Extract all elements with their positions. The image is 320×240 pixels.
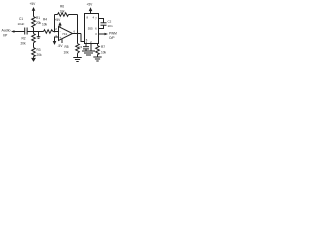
svg-text:2: 2 [55,27,57,31]
resistor R4 [42,18,53,34]
ground (small, at node A stub) [37,32,41,39]
power +5V (left) [30,2,37,17]
capacitor C2 [101,19,113,28]
svg-text:R5: R5 [65,45,69,49]
wire feedback left [54,15,56,32]
svg-text:20k: 20k [36,21,42,25]
svg-text:10k: 10k [101,50,107,54]
capacitor C1 [18,17,28,35]
capacitor C3 [79,44,90,52]
resistor R1 [32,16,42,32]
svg-text:I/P: I/P [3,33,8,37]
svg-text:10k: 10k [60,10,66,14]
svg-text:+5V: +5V [55,18,62,22]
svg-text:+5V: +5V [30,2,37,6]
svg-text:10n: 10n [108,24,113,28]
svg-text:R6: R6 [60,5,64,9]
resistor R6 [58,5,69,17]
wire pin 7 stub [99,19,104,23]
svg-text:10k: 10k [42,23,48,27]
svg-text:20k: 20k [21,41,27,45]
svg-text:6: 6 [95,27,97,31]
wire op-amp output [73,33,82,35]
svg-text:7: 7 [95,17,97,21]
resistor R2 [21,32,36,46]
resistor R3 [32,48,42,58]
svg-text:3: 3 [95,32,97,36]
svg-text:R3: R3 [37,48,41,52]
svg-text:555: 555 [88,27,93,31]
node C junction dot [77,33,79,35]
svg-text:PWM: PWM [109,32,117,36]
svg-text:+5V: +5V [87,3,94,7]
svg-text:8: 8 [87,15,89,19]
svg-text:R7: R7 [101,45,105,49]
resistor R7 [96,44,107,58]
wire pin 6 stub [99,25,104,28]
resistor R5 [64,44,80,58]
wire feedback right [77,15,79,34]
svg-text:10uF: 10uF [18,22,25,26]
wire feedback top right [69,14,78,16]
input arrow [11,30,17,32]
wire R4 to op-amp pin 2 [53,31,59,33]
svg-text:+: + [59,36,61,40]
wire input to C1 [17,31,25,33]
svg-text:20k: 20k [37,53,43,57]
node A junction dot [33,31,35,33]
node B junction dot [54,31,56,33]
wire pin 3 output arrow [99,32,118,41]
svg-text:-5V: -5V [58,44,64,48]
svg-text:R1: R1 [36,16,40,20]
svg-text:R2: R2 [22,37,26,41]
ground (arrow style under R3) [31,57,36,62]
svg-text:6: 6 [74,30,76,34]
wire IC pin 1 down [90,44,92,52]
power +5V (IC pins 8,4) [87,3,94,14]
svg-text:Audio: Audio [2,29,11,33]
ground (under R5) [73,58,81,62]
node Audio I/P label [2,29,11,38]
power +5V (op-amp pin 7) [55,18,62,28]
wire R2 to R3 [33,43,35,48]
svg-text:C2: C2 [108,19,112,23]
svg-text:C3: C3 [79,45,83,49]
wire output down [77,34,79,44]
svg-text:O/P: O/P [109,36,115,40]
wire op-amp pin 3 [55,37,59,41]
ground (under IC) [82,51,95,55]
wire C1 to node A [27,31,43,33]
ground (under R7) [93,57,101,61]
IC U2 555 [85,14,99,45]
svg-text:741: 741 [62,32,67,36]
svg-text:C1: C1 [19,17,23,21]
svg-text:10k: 10k [64,50,70,54]
wire output to IC pin 5 [81,34,85,42]
power -5V (op-amp pin 4) [53,39,64,48]
wire feedback top left [55,14,58,16]
svg-text:R4: R4 [43,18,47,22]
op-amp U1 [55,27,75,41]
